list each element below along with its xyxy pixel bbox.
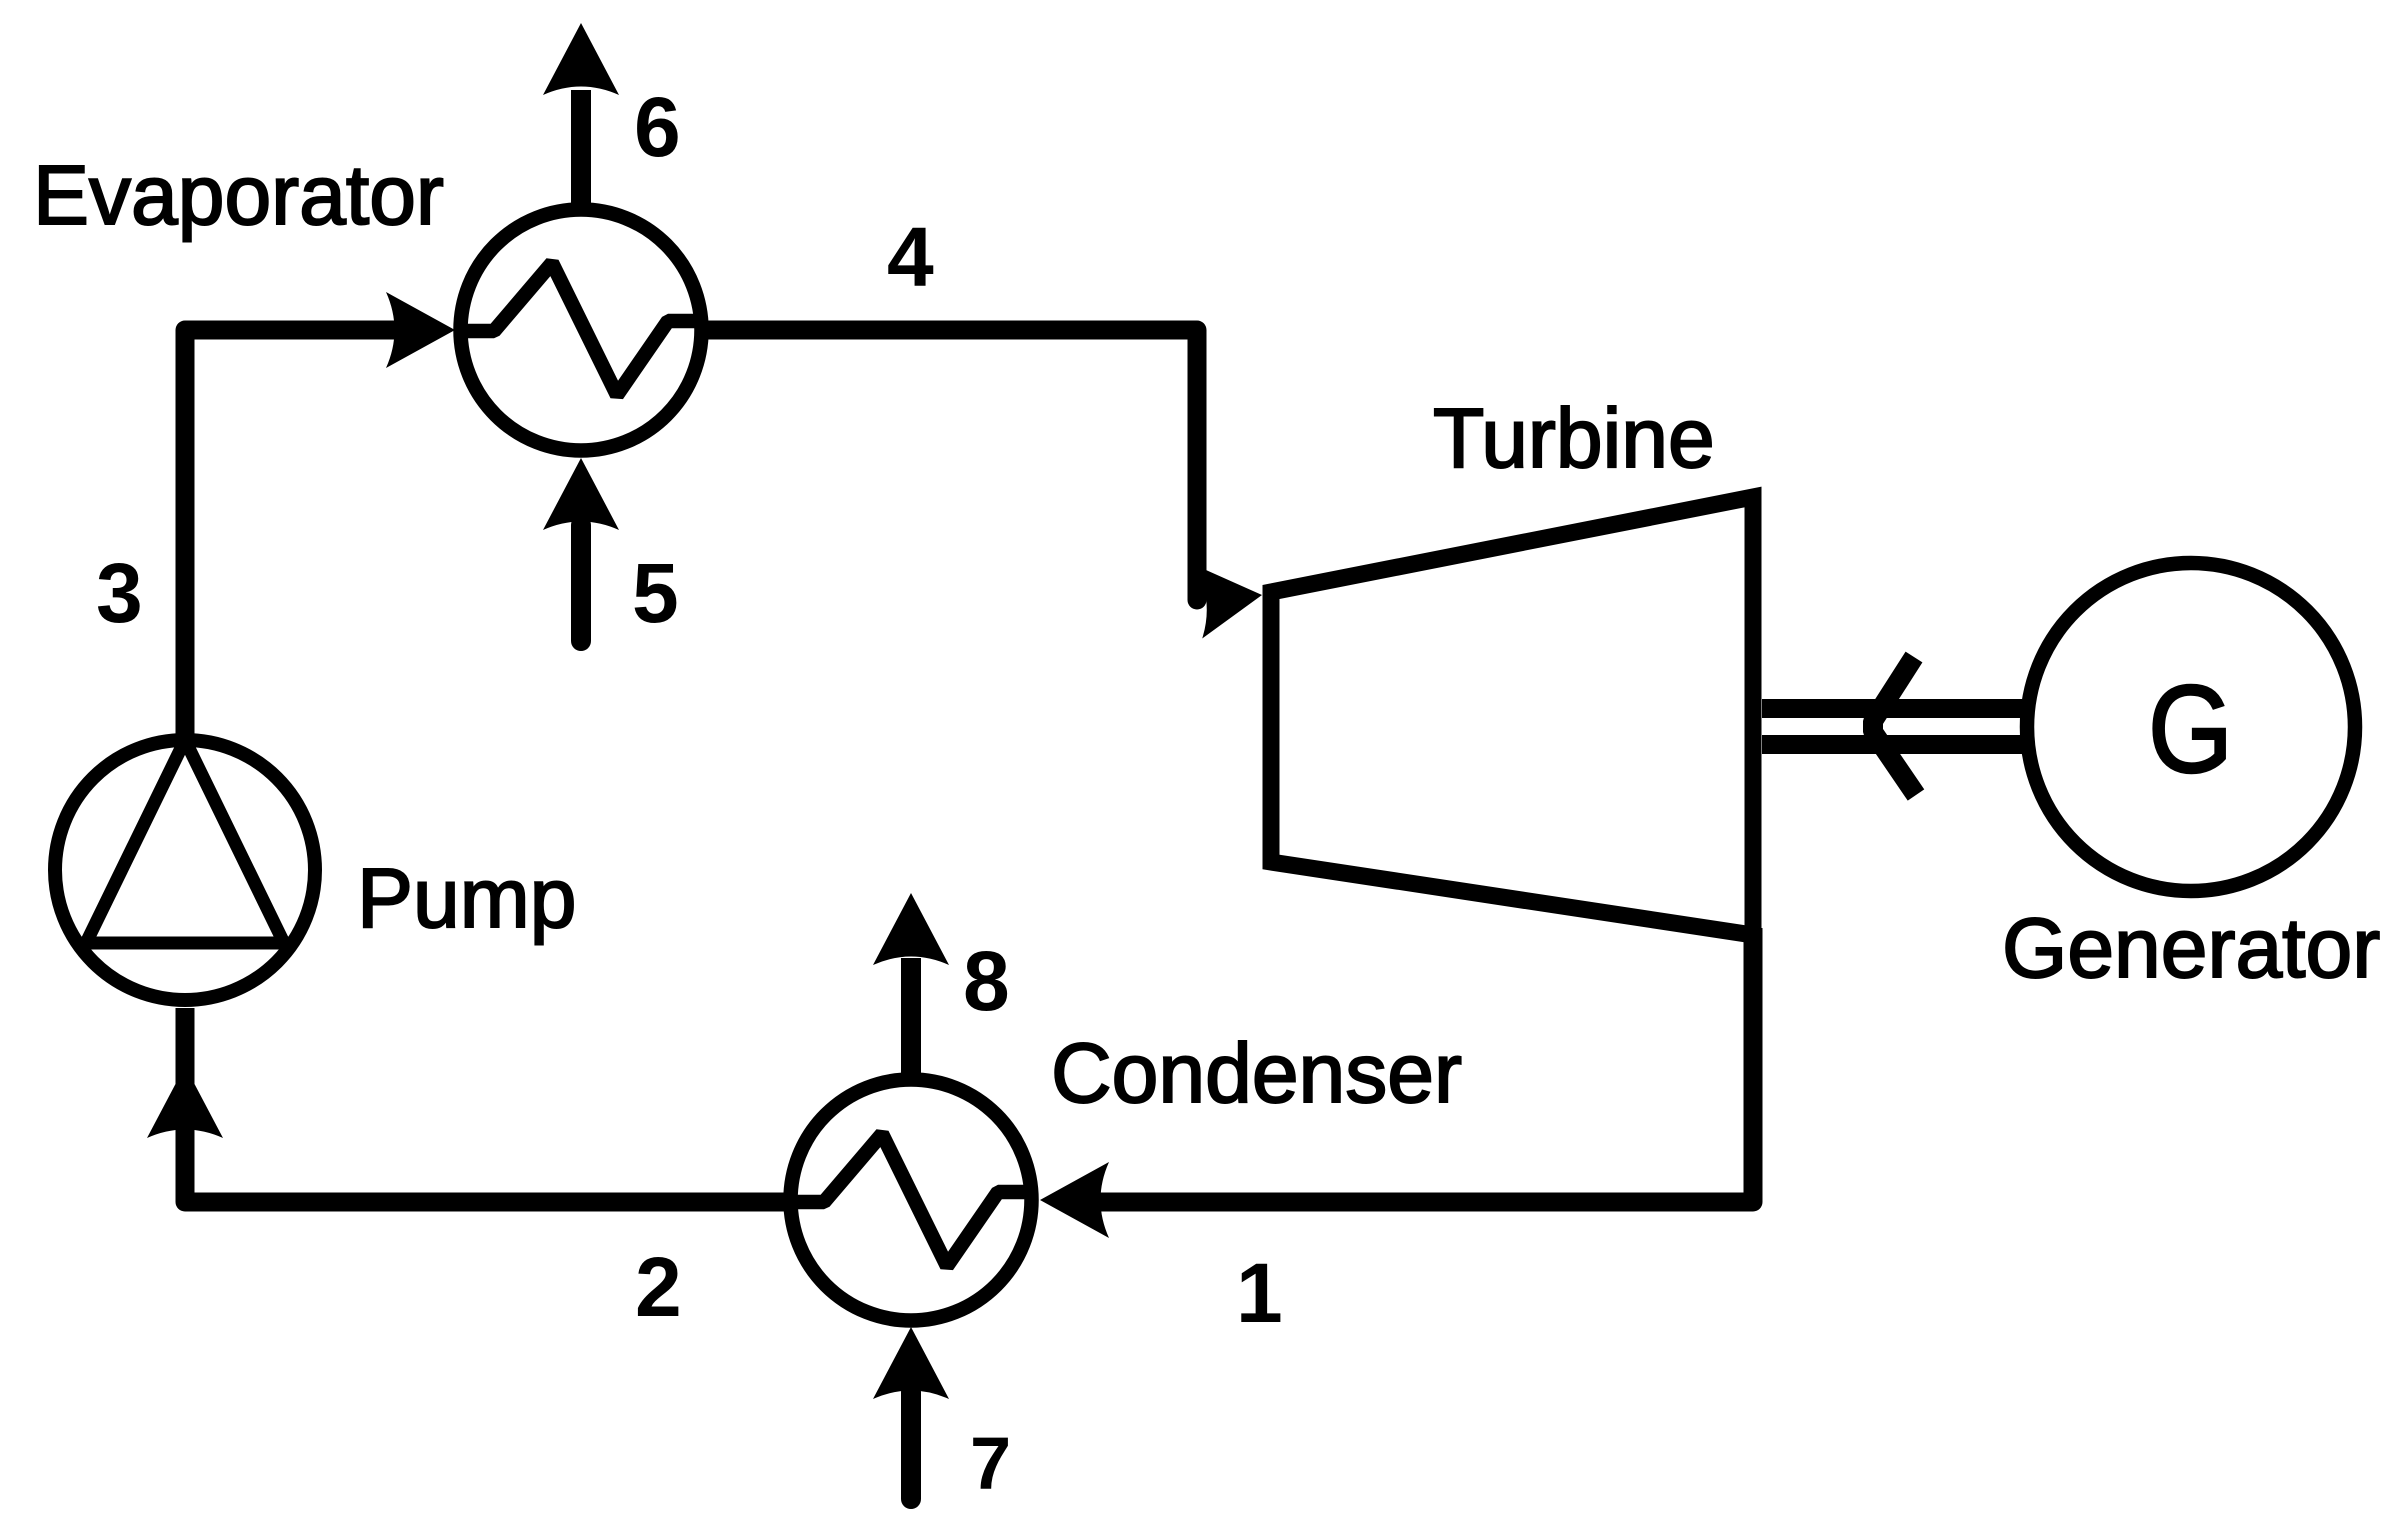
shaft arrow toward turbine bbox=[1873, 657, 1916, 795]
condenser heat exchanger circle bbox=[791, 1080, 1032, 1321]
evaporator zigzag bbox=[455, 263, 702, 395]
evaporator heat exchanger circle bbox=[461, 210, 702, 451]
stream 6 arrow out of evaporator bbox=[571, 90, 591, 205]
svg-text:Generator: Generator bbox=[2002, 901, 2380, 995]
wire 1 turbine to condenser bbox=[1097, 928, 1753, 1202]
svg-text:1: 1 bbox=[1236, 1246, 1283, 1340]
svg-text:3: 3 bbox=[96, 546, 143, 640]
wire 4 evaporator to turbine bbox=[708, 330, 1197, 600]
arrowhead into turbine (stream 4) bbox=[1194, 558, 1265, 638]
wire 3 pump to evaporator bbox=[185, 330, 400, 745]
svg-text:8: 8 bbox=[963, 934, 1010, 1028]
turbine trapezoid bbox=[1271, 497, 1753, 935]
generator circle bbox=[2027, 563, 2355, 891]
svg-text:Condenser: Condenser bbox=[1051, 1026, 1462, 1120]
svg-text:G: G bbox=[2148, 661, 2233, 799]
generator shaft double line bbox=[1762, 699, 2026, 718]
svg-text:2: 2 bbox=[635, 1240, 682, 1334]
stream 7 arrow into condenser bbox=[901, 1392, 921, 1499]
wire 2 condenser to pump bbox=[185, 1008, 784, 1202]
arrowhead into pump (stream 2) bbox=[147, 1066, 223, 1138]
pump circle bbox=[55, 740, 315, 1000]
svg-text:Turbine: Turbine bbox=[1433, 391, 1715, 485]
arrowhead into evaporator (stream 3) bbox=[386, 292, 455, 368]
svg-text:7: 7 bbox=[970, 1422, 1011, 1505]
svg-text:6: 6 bbox=[634, 80, 681, 174]
stream 8 arrow out of condenser bbox=[901, 958, 921, 1074]
condenser zigzag bbox=[785, 1134, 1032, 1266]
svg-text:Pump: Pump bbox=[357, 851, 576, 945]
stream 5 arrow into evaporator bbox=[571, 525, 591, 641]
svg-text:Evaporator: Evaporator bbox=[33, 148, 444, 242]
svg-text:4: 4 bbox=[887, 210, 934, 304]
pump chord line bbox=[77, 937, 293, 950]
arrowhead into condenser (stream 1) bbox=[1040, 1162, 1109, 1238]
svg-text:5: 5 bbox=[632, 546, 679, 640]
pump triangle bbox=[86, 740, 284, 943]
